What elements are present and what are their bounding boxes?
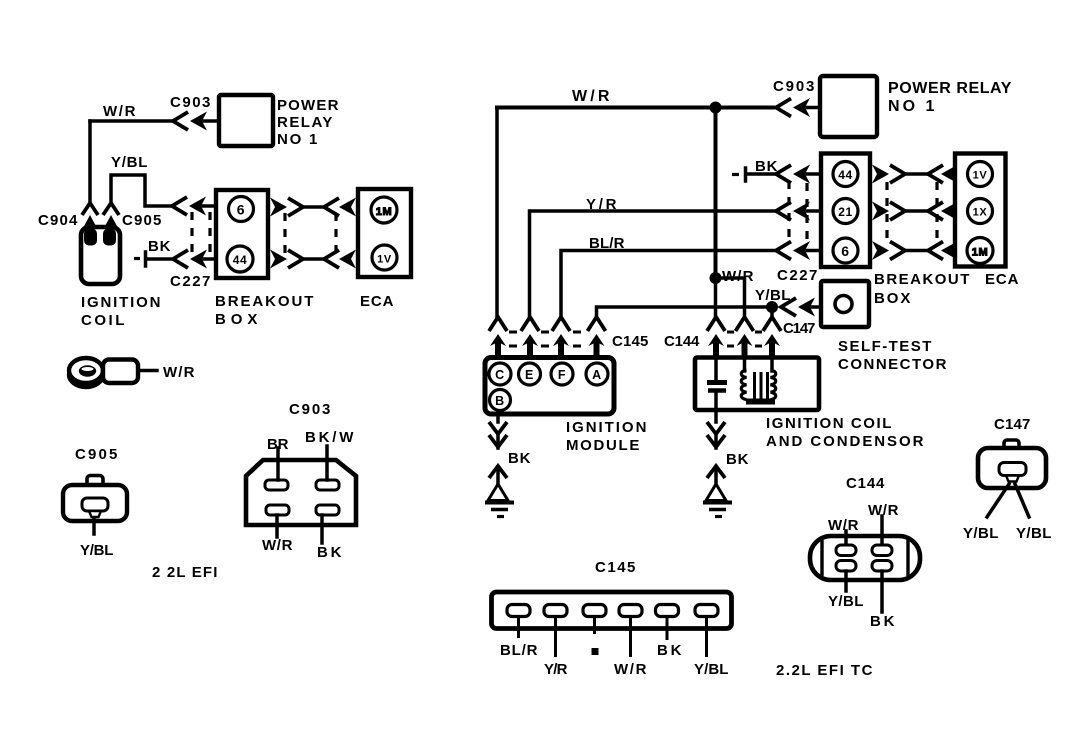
- arrow filled BK row: [793, 165, 810, 184]
- svg-text:C: C: [495, 368, 505, 382]
- svg-text:W/R: W/R: [103, 103, 136, 120]
- wire W/R trunk vertical: [714, 108, 718, 278]
- svg-text:BOX: BOX: [874, 290, 911, 307]
- ignition coil and condensor box: [695, 358, 819, 411]
- svg-text:W/R: W/R: [262, 537, 293, 554]
- svg-text:BK/W: BK/W: [305, 429, 354, 446]
- module pin B: [490, 390, 511, 411]
- pin 1V circle (right): [968, 162, 993, 187]
- svg-text:W/R: W/R: [868, 502, 899, 519]
- svg-text:C147: C147: [994, 416, 1031, 433]
- C144 secondary pin arrows: [763, 317, 781, 358]
- wire Y/R: [530, 211, 775, 317]
- arrow filled Y/R row: [793, 202, 810, 221]
- wire BK to breakout box pin 44: [147, 257, 171, 261]
- pin 21 circle (right): [833, 199, 858, 224]
- connector C905 face view: [63, 476, 127, 535]
- terminal C904 open chevron: [82, 203, 98, 215]
- pin 44 circle (right): [833, 162, 858, 187]
- svg-text:BREAKOUT: BREAKOUT: [874, 271, 970, 288]
- ignition coil body: [81, 227, 120, 284]
- svg-text:BK: BK: [870, 613, 895, 630]
- svg-text:IGNITION: IGNITION: [81, 294, 161, 311]
- wire BL/R: [561, 251, 774, 318]
- svg-text:C144: C144: [664, 333, 700, 350]
- svg-text:NO 1: NO 1: [277, 131, 318, 148]
- coil ground symbol: [703, 466, 732, 517]
- C145 terminal 3 spare: [583, 605, 606, 656]
- svg-text:Y/BL: Y/BL: [828, 593, 864, 610]
- svg-text:1X: 1X: [973, 207, 988, 219]
- ring terminal W/R: [69, 358, 157, 387]
- ground tick for BK wire: [134, 252, 146, 266]
- svg-text:6: 6: [237, 202, 245, 218]
- svg-text:BOX: BOX: [215, 311, 258, 328]
- pin 1M circle (right): [967, 238, 993, 264]
- C145 pin F arrows: [552, 317, 570, 358]
- svg-text:POWER: POWER: [277, 97, 339, 114]
- pin 1M circle: [371, 197, 397, 223]
- svg-text:2 2L EFI: 2 2L EFI: [152, 564, 218, 581]
- terminal C905 filled arrow: [104, 215, 118, 228]
- connector C903 face view: [246, 460, 356, 525]
- svg-text:BK: BK: [657, 642, 682, 659]
- svg-text:IGNITION: IGNITION: [566, 419, 647, 436]
- module pin C: [489, 363, 511, 385]
- wire Y/BL down to C144: [770, 307, 774, 317]
- arrow filled BL/R row: [793, 241, 810, 260]
- arrow open BK row: [776, 165, 791, 183]
- connector boundary dashes C144: [727, 332, 762, 346]
- svg-text:ECA: ECA: [360, 293, 394, 310]
- arrow filled BK row into C227: [190, 250, 207, 269]
- power relay no 1 box (right): [820, 76, 877, 137]
- connector boundary dashes between breakout and ECA (left): [285, 213, 336, 253]
- module pin F: [551, 363, 573, 385]
- ignition coil winding: [741, 358, 776, 402]
- connector boundary dashes between right breakout and ECA: [887, 182, 937, 243]
- connector C144 face view: [810, 536, 920, 580]
- svg-text:C905: C905: [75, 446, 118, 463]
- svg-text:BREAKOUT: BREAKOUT: [215, 293, 314, 310]
- arrow filled C147: [798, 298, 815, 317]
- label POWER RELAY NO 1 (right): [888, 80, 1012, 115]
- svg-text:NO 1: NO 1: [888, 98, 935, 115]
- label IGNITION COIL AND CONDENSOR: [766, 415, 924, 450]
- arrow open Y/BL row into C227: [172, 197, 187, 215]
- svg-text:F: F: [558, 368, 566, 382]
- module ground symbol: [485, 466, 514, 517]
- svg-text:IGNITION COIL: IGNITION COIL: [766, 415, 892, 432]
- ECA box (left): [358, 189, 411, 277]
- C147 pin wire left: [987, 484, 1009, 517]
- wire W/R down to C144 condensor: [714, 278, 718, 317]
- label IGNITION COIL: [81, 294, 161, 329]
- C145 terminal 4 W/R: [619, 605, 642, 658]
- C145 terminal 6 Y/BL: [695, 605, 718, 658]
- svg-text:Y/BL: Y/BL: [1016, 525, 1052, 542]
- C903 terminal BK/W: [316, 446, 339, 490]
- C147 pin wire right: [1015, 484, 1029, 517]
- label BREAKOUT BOX (left): [215, 293, 314, 328]
- arrow open Y/R row: [776, 202, 791, 220]
- svg-text:SELF-TEST: SELF-TEST: [838, 338, 932, 355]
- wire 1 down to ignition module pin C: [495, 108, 499, 318]
- svg-text:C227: C227: [777, 267, 818, 284]
- connector C147 face view: [978, 440, 1046, 488]
- C144 terminal W/R 2: [872, 516, 892, 556]
- condensor (capacitor): [707, 358, 727, 411]
- svg-text:Y/BL: Y/BL: [694, 661, 729, 678]
- label SELF-TEST CONNECTOR: [838, 338, 947, 373]
- connector boundary dashes left of breakout box: [192, 212, 210, 254]
- module ground wire chevrons: [489, 414, 507, 448]
- svg-text:C145: C145: [612, 333, 649, 350]
- C145 terminal 5 BK: [656, 605, 679, 641]
- pin 1V circle: [372, 245, 397, 270]
- arrow open into C903 (right relay): [776, 99, 791, 117]
- coil ground wire chevrons: [707, 410, 725, 448]
- svg-text:Y/R: Y/R: [544, 661, 568, 678]
- arrow open C147: [781, 298, 796, 316]
- wire Y/BL from C905 to breakout box pin 6: [111, 175, 171, 206]
- mating connector row3 between right breakout and ECA: [872, 241, 958, 260]
- pin 44 circle: [227, 246, 253, 272]
- C144 terminal W/R 1: [836, 531, 856, 556]
- svg-text:1V: 1V: [377, 254, 392, 266]
- C145 terminal 2 Y/R: [544, 605, 567, 658]
- wire Y/BL to self-test connector: [597, 307, 775, 317]
- label BREAKOUT BOX / ECA (right): [874, 271, 1019, 307]
- svg-text:MODULE: MODULE: [566, 437, 640, 454]
- module pin E: [519, 363, 541, 385]
- C144 primary pin arrows: [736, 317, 754, 358]
- connector boundary dashes C145: [509, 332, 581, 346]
- arrow filled into C903 (left relay): [190, 112, 207, 131]
- svg-text:C145: C145: [595, 559, 636, 576]
- svg-text:COIL: COIL: [81, 312, 125, 329]
- svg-text:W/R: W/R: [572, 88, 610, 105]
- terminal C904 filled arrow: [83, 215, 97, 228]
- C145 pin C arrows: [489, 317, 507, 358]
- wire W/R trunk horizontal: [497, 106, 773, 110]
- svg-text:2.2L EFI TC: 2.2L EFI TC: [776, 662, 873, 679]
- svg-text:C227: C227: [170, 273, 211, 290]
- svg-text:1V: 1V: [973, 170, 988, 182]
- svg-text:44: 44: [233, 253, 248, 267]
- pin 1X circle (right): [968, 199, 993, 224]
- self-test connector box: [821, 281, 869, 327]
- svg-text:C144: C144: [846, 475, 885, 492]
- C145 terminal 1 BL/R: [507, 605, 530, 639]
- pin 6 circle (right): [833, 238, 858, 263]
- svg-text:ECA: ECA: [985, 271, 1019, 288]
- svg-text:POWER RELAY: POWER RELAY: [888, 80, 1012, 97]
- svg-text:A: A: [592, 368, 602, 382]
- label IGNITION MODULE: [566, 419, 647, 454]
- breakout box (right): [821, 154, 870, 268]
- svg-text:C905: C905: [122, 212, 162, 229]
- svg-text:BK: BK: [508, 450, 531, 467]
- C144 terminal Y/BL: [836, 561, 856, 592]
- wire W/R from ignition coil C904 to power relay: [90, 121, 171, 202]
- node junction W/R trunk: [710, 102, 722, 114]
- svg-text:BK: BK: [726, 451, 749, 468]
- arrow filled Y/BL row into C227: [189, 197, 206, 216]
- svg-text:BL/R: BL/R: [500, 642, 538, 659]
- svg-text:44: 44: [838, 168, 853, 182]
- svg-text:C903: C903: [773, 78, 815, 95]
- module pin A: [586, 363, 608, 385]
- C144 condensor pin arrows: [707, 317, 725, 358]
- arrow open into C903 (left relay): [173, 112, 188, 130]
- svg-text:W/R: W/R: [163, 364, 195, 381]
- mating connector row1 between right breakout and ECA: [872, 165, 958, 184]
- svg-text:BK: BK: [148, 238, 171, 255]
- label POWER RELAY NO 1 (left): [277, 97, 339, 148]
- ECA box (right): [955, 154, 1006, 267]
- mating connector row2 between right breakout and ECA: [872, 202, 958, 221]
- svg-text:C147: C147: [783, 320, 816, 337]
- arrow filled into C903 (right relay): [793, 98, 810, 117]
- connector boundary dashes left of right breakout box: [789, 181, 807, 245]
- svg-text:BK: BK: [317, 544, 342, 561]
- svg-text:W/R: W/R: [828, 517, 859, 534]
- ignition module box: [485, 358, 614, 415]
- svg-text:RELAY: RELAY: [277, 114, 333, 131]
- wire BK to right breakout pin 44: [747, 172, 774, 176]
- connector C145 face view: [492, 592, 732, 629]
- svg-text:BR: BR: [267, 436, 289, 453]
- C144 terminal BK: [872, 561, 892, 613]
- svg-text:CONNECTOR: CONNECTOR: [838, 356, 947, 373]
- node junction W/R to C144: [710, 272, 722, 284]
- svg-text:21: 21: [838, 205, 853, 219]
- wire stub to relay box: [204, 119, 218, 123]
- svg-text:C903: C903: [170, 94, 211, 111]
- breakout box (left): [216, 190, 268, 278]
- mating connector row1 between breakout and ECA (left): [270, 198, 356, 217]
- terminal C905 open chevron: [103, 203, 119, 215]
- svg-text:C903: C903: [289, 401, 331, 418]
- C145 pin E arrows: [521, 317, 539, 358]
- power relay no 1 box (left): [219, 95, 273, 146]
- svg-text:Y/BL: Y/BL: [80, 542, 114, 559]
- svg-text:AND CONDENSOR: AND CONDENSOR: [766, 433, 924, 450]
- svg-text:C904: C904: [38, 212, 78, 229]
- pin 6 circle: [229, 197, 254, 222]
- svg-text:6: 6: [841, 243, 849, 259]
- wire W/R branch to C144 primary: [716, 278, 745, 317]
- C903 terminal BK: [316, 505, 339, 543]
- C903 terminal BR: [265, 448, 288, 490]
- C145 pin A arrows: [588, 317, 606, 358]
- svg-text:B: B: [495, 394, 505, 408]
- C903 terminal W/R: [266, 505, 289, 537]
- mating connector row2 between breakout and ECA (left): [270, 250, 356, 269]
- node junction Y/BL: [766, 301, 778, 313]
- arrow open BK row into C227: [173, 250, 188, 268]
- ground tick for right BK wire: [732, 168, 746, 181]
- svg-text:1M: 1M: [376, 206, 392, 218]
- arrow open BL/R row: [776, 242, 791, 260]
- svg-text:E: E: [525, 368, 534, 382]
- svg-text:1M: 1M: [972, 247, 988, 259]
- svg-text:W/R: W/R: [614, 661, 647, 678]
- svg-text:Y/BL: Y/BL: [963, 525, 999, 542]
- svg-text:Y/BL: Y/BL: [111, 154, 148, 171]
